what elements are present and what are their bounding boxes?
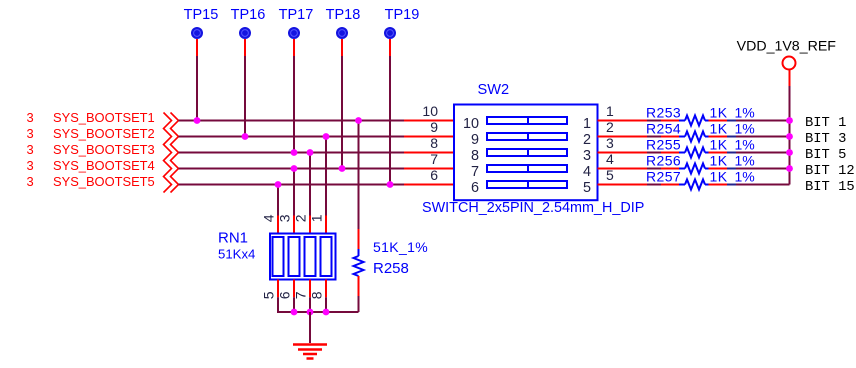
svg-text:SWITCH_2x5PIN_2.54mm_H_DIP: SWITCH_2x5PIN_2.54mm_H_DIP bbox=[422, 200, 644, 216]
svg-text:3: 3 bbox=[277, 214, 293, 222]
junction RN1 row4 bbox=[291, 165, 298, 172]
junction RN1 row5 bbox=[275, 181, 282, 188]
svg-text:SYS_BOOTSET1: SYS_BOOTSET1 bbox=[53, 110, 155, 125]
svg-text:1K: 1K bbox=[710, 121, 728, 137]
svg-text:3: 3 bbox=[27, 158, 34, 173]
junction RN1 row3 bbox=[307, 149, 314, 156]
testpoint TP17 pin bbox=[293, 39, 295, 56]
svg-text:R257: R257 bbox=[646, 169, 681, 185]
junction RN1 row2 bbox=[323, 133, 330, 140]
wire SYS_BOOTSET4 horizontal bbox=[179, 168, 405, 170]
junction VDD row1 bbox=[786, 117, 793, 124]
wire row2 to RN1 pin1 bbox=[325, 137, 327, 216]
SW2 pin 7 stub bbox=[404, 168, 454, 170]
svg-text:1%: 1% bbox=[735, 153, 755, 169]
svg-text:6: 6 bbox=[471, 180, 479, 196]
junction TP18 row4 bbox=[339, 165, 346, 172]
junction bus pin7 bbox=[307, 309, 314, 316]
svg-text:R258: R258 bbox=[373, 260, 409, 277]
RN1 pin 3 stub top bbox=[293, 216, 295, 234]
svg-text:1K: 1K bbox=[710, 169, 728, 185]
junction R258 row1 bbox=[355, 117, 362, 124]
ground symbol bbox=[293, 345, 327, 359]
junction bus pin6 bbox=[291, 309, 298, 316]
wire VDD_1V8_REF vertical bbox=[789, 86, 791, 185]
testpoint TP16 symbol bbox=[239, 27, 251, 39]
RN1 pin 1 stub top bbox=[325, 216, 327, 234]
svg-text:TP19: TP19 bbox=[385, 7, 420, 23]
svg-text:SYS_BOOTSET3: SYS_BOOTSET3 bbox=[53, 142, 155, 157]
SW2 pin 8 stub bbox=[404, 152, 454, 154]
SW2 switch element 3 bbox=[487, 149, 567, 156]
SW2 outside pin numbers right bbox=[606, 103, 614, 183]
wire SYS_BOOTSET3 horizontal bbox=[179, 152, 405, 154]
svg-text:5: 5 bbox=[583, 180, 591, 196]
svg-text:1%: 1% bbox=[735, 105, 755, 121]
svg-text:8: 8 bbox=[471, 148, 479, 164]
testpoint TP19 pin bbox=[389, 39, 391, 56]
svg-text:2: 2 bbox=[583, 132, 591, 148]
SW2 switch element 2 bbox=[487, 133, 567, 140]
RN1 pin 2 stub top bbox=[309, 216, 311, 234]
svg-text:4: 4 bbox=[583, 164, 591, 180]
junction TP15 row1 bbox=[194, 117, 201, 124]
wire row5 to RN1 pin4 bbox=[277, 185, 279, 216]
junction VDD row4 bbox=[786, 165, 793, 172]
wire SYS_BOOTSET1 horizontal bbox=[179, 120, 405, 122]
junction TP16 row2 bbox=[242, 133, 249, 140]
wire TP19 to SYS_BOOTSET5 bbox=[389, 56, 391, 185]
testpoint TP17 symbol bbox=[288, 27, 300, 39]
svg-text:1%: 1% bbox=[735, 169, 755, 185]
resistor R257 bbox=[646, 169, 790, 190]
svg-text:7: 7 bbox=[471, 164, 479, 180]
wire TP18 to SYS_BOOTSET4 bbox=[341, 56, 343, 169]
SW2 pin 4 stub right bbox=[598, 168, 651, 170]
junction bus pin8 bbox=[323, 309, 330, 316]
svg-text:SYS_BOOTSET2: SYS_BOOTSET2 bbox=[53, 126, 155, 141]
SW2 pin 6 stub bbox=[404, 184, 454, 186]
svg-text:1K: 1K bbox=[710, 137, 728, 153]
SW2 pin 5 stub right bbox=[598, 184, 651, 186]
svg-text:TP18: TP18 bbox=[326, 7, 361, 23]
net label 3 SYS_BOOTSET4 bbox=[27, 158, 155, 173]
wire SYS_BOOTSET5 horizontal bbox=[179, 184, 405, 186]
resistor R255 bbox=[646, 137, 790, 158]
svg-text:3: 3 bbox=[27, 174, 34, 189]
svg-text:SW2: SW2 bbox=[478, 82, 510, 98]
svg-text:9: 9 bbox=[430, 119, 438, 135]
svg-text:1: 1 bbox=[583, 116, 591, 132]
wire RN1 pin7 to bus bbox=[309, 297, 311, 312]
wire TP17 to SYS_BOOTSET3 bbox=[293, 56, 295, 153]
svg-text:3: 3 bbox=[27, 110, 34, 125]
svg-text:SYS_BOOTSET4: SYS_BOOTSET4 bbox=[53, 158, 155, 173]
svg-text:9: 9 bbox=[471, 132, 479, 148]
svg-text:1: 1 bbox=[606, 103, 614, 119]
svg-text:TP16: TP16 bbox=[231, 7, 266, 23]
junction VDD row3 bbox=[786, 149, 793, 156]
svg-text:BIT 1: BIT 1 bbox=[805, 116, 846, 131]
svg-text:8: 8 bbox=[430, 135, 438, 151]
svg-text:BIT 15: BIT 15 bbox=[805, 180, 855, 195]
wire ground drop bbox=[309, 312, 311, 343]
svg-text:RN1: RN1 bbox=[218, 230, 248, 247]
testpoint TP18 symbol bbox=[336, 27, 348, 39]
svg-text:7: 7 bbox=[430, 151, 438, 167]
svg-text:51Kx4: 51Kx4 bbox=[218, 247, 255, 262]
net label 3 SYS_BOOTSET5 bbox=[27, 174, 155, 189]
svg-text:R255: R255 bbox=[646, 137, 681, 153]
junction TP17 row3 bbox=[291, 149, 298, 156]
svg-text:3: 3 bbox=[583, 148, 591, 164]
testpoint TP19 symbol bbox=[384, 27, 396, 39]
svg-text:6: 6 bbox=[430, 167, 438, 183]
wire SYS_BOOTSET2 horizontal bbox=[179, 136, 405, 138]
svg-text:VDD_1V8_REF: VDD_1V8_REF bbox=[737, 39, 837, 55]
net label 3 SYS_BOOTSET3 bbox=[27, 142, 155, 157]
SW2 pin 3 stub right bbox=[598, 152, 651, 154]
resistor R254 bbox=[646, 121, 790, 142]
testpoint TP15 symbol bbox=[191, 27, 203, 39]
svg-text:TP15: TP15 bbox=[184, 7, 219, 23]
svg-text:R254: R254 bbox=[646, 121, 681, 137]
net label 3 SYS_BOOTSET2 bbox=[27, 126, 155, 141]
svg-text:BIT 12: BIT 12 bbox=[805, 164, 855, 179]
RN1 pin 7 stub bottom bbox=[309, 280, 311, 298]
RN1 pin 5 stub bottom bbox=[277, 280, 279, 298]
svg-text:1K: 1K bbox=[710, 153, 728, 169]
SW2 switch element 5 bbox=[487, 181, 567, 188]
SW2 pin 2 stub right bbox=[598, 136, 651, 138]
SW2 inside pin numbers left bbox=[463, 116, 479, 196]
RN1 pin 6 stub bottom bbox=[293, 280, 295, 298]
svg-text:4: 4 bbox=[261, 214, 277, 222]
SW2 switch element 4 bbox=[487, 165, 567, 172]
svg-text:BIT 3: BIT 3 bbox=[805, 132, 846, 147]
svg-text:51K_1%: 51K_1% bbox=[373, 239, 428, 255]
wire row4 to RN1 pin3 bbox=[293, 169, 295, 216]
switch SW2 body bbox=[454, 105, 598, 201]
junction TP19 row5 bbox=[387, 181, 394, 188]
wire R258 top from row1 bbox=[358, 121, 360, 230]
resistor network RN1 body bbox=[270, 234, 336, 280]
SW2 pin 10 stub bbox=[404, 120, 454, 122]
wire RN1 pin8 to bus bbox=[325, 297, 327, 312]
testpoint TP16 pin bbox=[244, 39, 246, 56]
SW2 pin 9 stub bbox=[404, 136, 454, 138]
wire row3 to RN1 pin2 bbox=[309, 153, 311, 216]
net label 3 SYS_BOOTSET1 bbox=[27, 110, 155, 125]
svg-text:1K: 1K bbox=[710, 105, 728, 121]
SW2 switch element 1 bbox=[487, 117, 567, 124]
svg-text:R253: R253 bbox=[646, 105, 681, 121]
svg-text:BIT 5: BIT 5 bbox=[805, 148, 846, 163]
SW2 inside pin numbers right bbox=[583, 116, 591, 196]
power symbol VDD_1V8_REF bbox=[737, 39, 837, 87]
svg-text:R256: R256 bbox=[646, 153, 681, 169]
svg-text:10: 10 bbox=[422, 103, 438, 119]
SW2 outside pin numbers left bbox=[422, 103, 438, 183]
testpoint TP18 pin bbox=[341, 39, 343, 56]
wire RN1 pin6 to bus bbox=[293, 297, 295, 312]
svg-text:1: 1 bbox=[309, 214, 325, 222]
svg-text:5: 5 bbox=[261, 291, 277, 299]
wire R258 bottom to bus bbox=[358, 296, 360, 312]
RN1 pin 8 stub bottom bbox=[325, 280, 327, 298]
resistor R253 bbox=[646, 105, 790, 126]
SW2 pin 1 stub right bbox=[598, 120, 651, 122]
svg-text:1%: 1% bbox=[735, 121, 755, 137]
resistor R256 bbox=[646, 153, 790, 174]
wire TP15 to SYS_BOOTSET1 bbox=[196, 56, 198, 121]
svg-text:3: 3 bbox=[27, 142, 34, 157]
svg-text:SYS_BOOTSET5: SYS_BOOTSET5 bbox=[53, 174, 155, 189]
off-page connector chevrons SYS_BOOTSET1-5 bbox=[164, 113, 179, 193]
svg-text:1%: 1% bbox=[735, 137, 755, 153]
wire TP16 to SYS_BOOTSET2 bbox=[244, 56, 246, 137]
resistor R258 bbox=[354, 229, 429, 296]
testpoint TP15 pin bbox=[196, 39, 198, 56]
RN1 pin 4 stub top bbox=[277, 216, 279, 234]
svg-text:2: 2 bbox=[293, 214, 309, 222]
svg-text:TP17: TP17 bbox=[279, 7, 314, 23]
wire RN1 pin5 down and bus corner bbox=[278, 297, 359, 312]
svg-text:10: 10 bbox=[463, 116, 479, 132]
junction VDD row2 bbox=[786, 133, 793, 140]
svg-text:3: 3 bbox=[27, 126, 34, 141]
